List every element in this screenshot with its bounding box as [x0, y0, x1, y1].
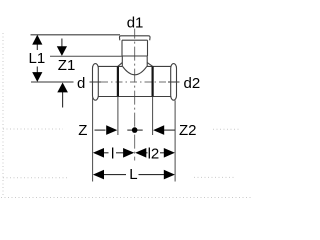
svg-text:L1: L1 [29, 50, 46, 67]
svg-text:d1: d1 [127, 14, 144, 31]
svg-text:l: l [111, 145, 114, 162]
svg-text:L: L [129, 166, 137, 183]
svg-text:l2: l2 [148, 145, 160, 162]
svg-text:d: d [77, 75, 85, 92]
svg-text:Z2: Z2 [179, 122, 197, 139]
svg-text:Z1: Z1 [58, 57, 76, 74]
svg-text:Z: Z [78, 122, 87, 139]
svg-text:d2: d2 [184, 75, 201, 92]
